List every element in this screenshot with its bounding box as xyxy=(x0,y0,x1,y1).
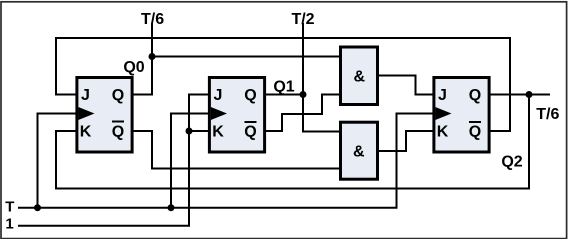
wire FF1 clock from T xyxy=(38,114,76,208)
wire T clock line to FF3 clock xyxy=(19,114,433,208)
svg-text:J: J xyxy=(81,87,90,104)
node T to FF1 clock xyxy=(34,204,41,211)
wire AND2 output to FF3 K xyxy=(379,131,433,151)
svg-text:T: T xyxy=(5,199,14,216)
svg-text:&: & xyxy=(353,143,365,160)
wire logic 1 line up to FF2 J xyxy=(19,95,208,226)
wire Q0 to AND1 input xyxy=(152,56,339,58)
node Q1 junction xyxy=(300,91,307,98)
svg-text:&: & xyxy=(354,69,366,86)
svg-text:Q: Q xyxy=(112,124,124,141)
svg-text:Q: Q xyxy=(244,124,256,141)
wire FF2 Qbar jog to AND1 lower input xyxy=(266,95,339,132)
svg-text:Q2: Q2 xyxy=(501,154,522,171)
node Q0 junction xyxy=(149,53,156,60)
wire AND1 output to FF3 J xyxy=(379,76,433,95)
svg-text:Q: Q xyxy=(244,87,256,104)
wire Q2bar feedback: FF3 Qbar -> top wire -> FF1 J xyxy=(56,38,510,131)
wire K2 tap xyxy=(189,130,208,132)
flip-flop U1 xyxy=(77,78,132,153)
wire FF2 Q stub to node Q1 xyxy=(266,94,303,96)
flip-flop U2 xyxy=(209,78,264,153)
wire T/6 top label connector xyxy=(151,24,153,57)
and-gate A2 xyxy=(341,122,378,179)
wire FF2 clock from T xyxy=(171,114,208,208)
wire FF3 Q to T/6 output xyxy=(491,94,550,96)
svg-text:1: 1 xyxy=(5,216,13,233)
svg-text:K: K xyxy=(80,124,92,141)
wire T/2 label down through Q1 node to AND2 input xyxy=(303,24,339,132)
node T to FF2 clock xyxy=(168,204,175,211)
wire Q2 output feedback to FF1 K xyxy=(56,95,529,189)
svg-text:Q: Q xyxy=(469,124,481,141)
svg-text:Q0: Q0 xyxy=(123,59,144,76)
svg-text:J: J xyxy=(214,87,223,104)
svg-text:J: J xyxy=(438,87,447,104)
svg-text:Q: Q xyxy=(469,87,481,104)
svg-text:Q1: Q1 xyxy=(273,79,294,96)
svg-text:K: K xyxy=(437,124,449,141)
wire Q0: FF1 Q up to node xyxy=(134,57,153,95)
svg-text:T/6: T/6 xyxy=(141,11,164,28)
svg-text:K: K xyxy=(212,124,224,141)
svg-text:T/6: T/6 xyxy=(536,106,559,123)
svg-text:T/2: T/2 xyxy=(291,11,314,28)
and-gate A1 xyxy=(341,47,378,105)
node 1 to FF2 K xyxy=(186,128,193,135)
flip-flop U3 xyxy=(434,78,489,153)
node T/6 output junction xyxy=(526,91,533,98)
svg-text:Q: Q xyxy=(112,87,124,104)
wire FF1 Qbar to AND2 lower input xyxy=(134,131,340,169)
